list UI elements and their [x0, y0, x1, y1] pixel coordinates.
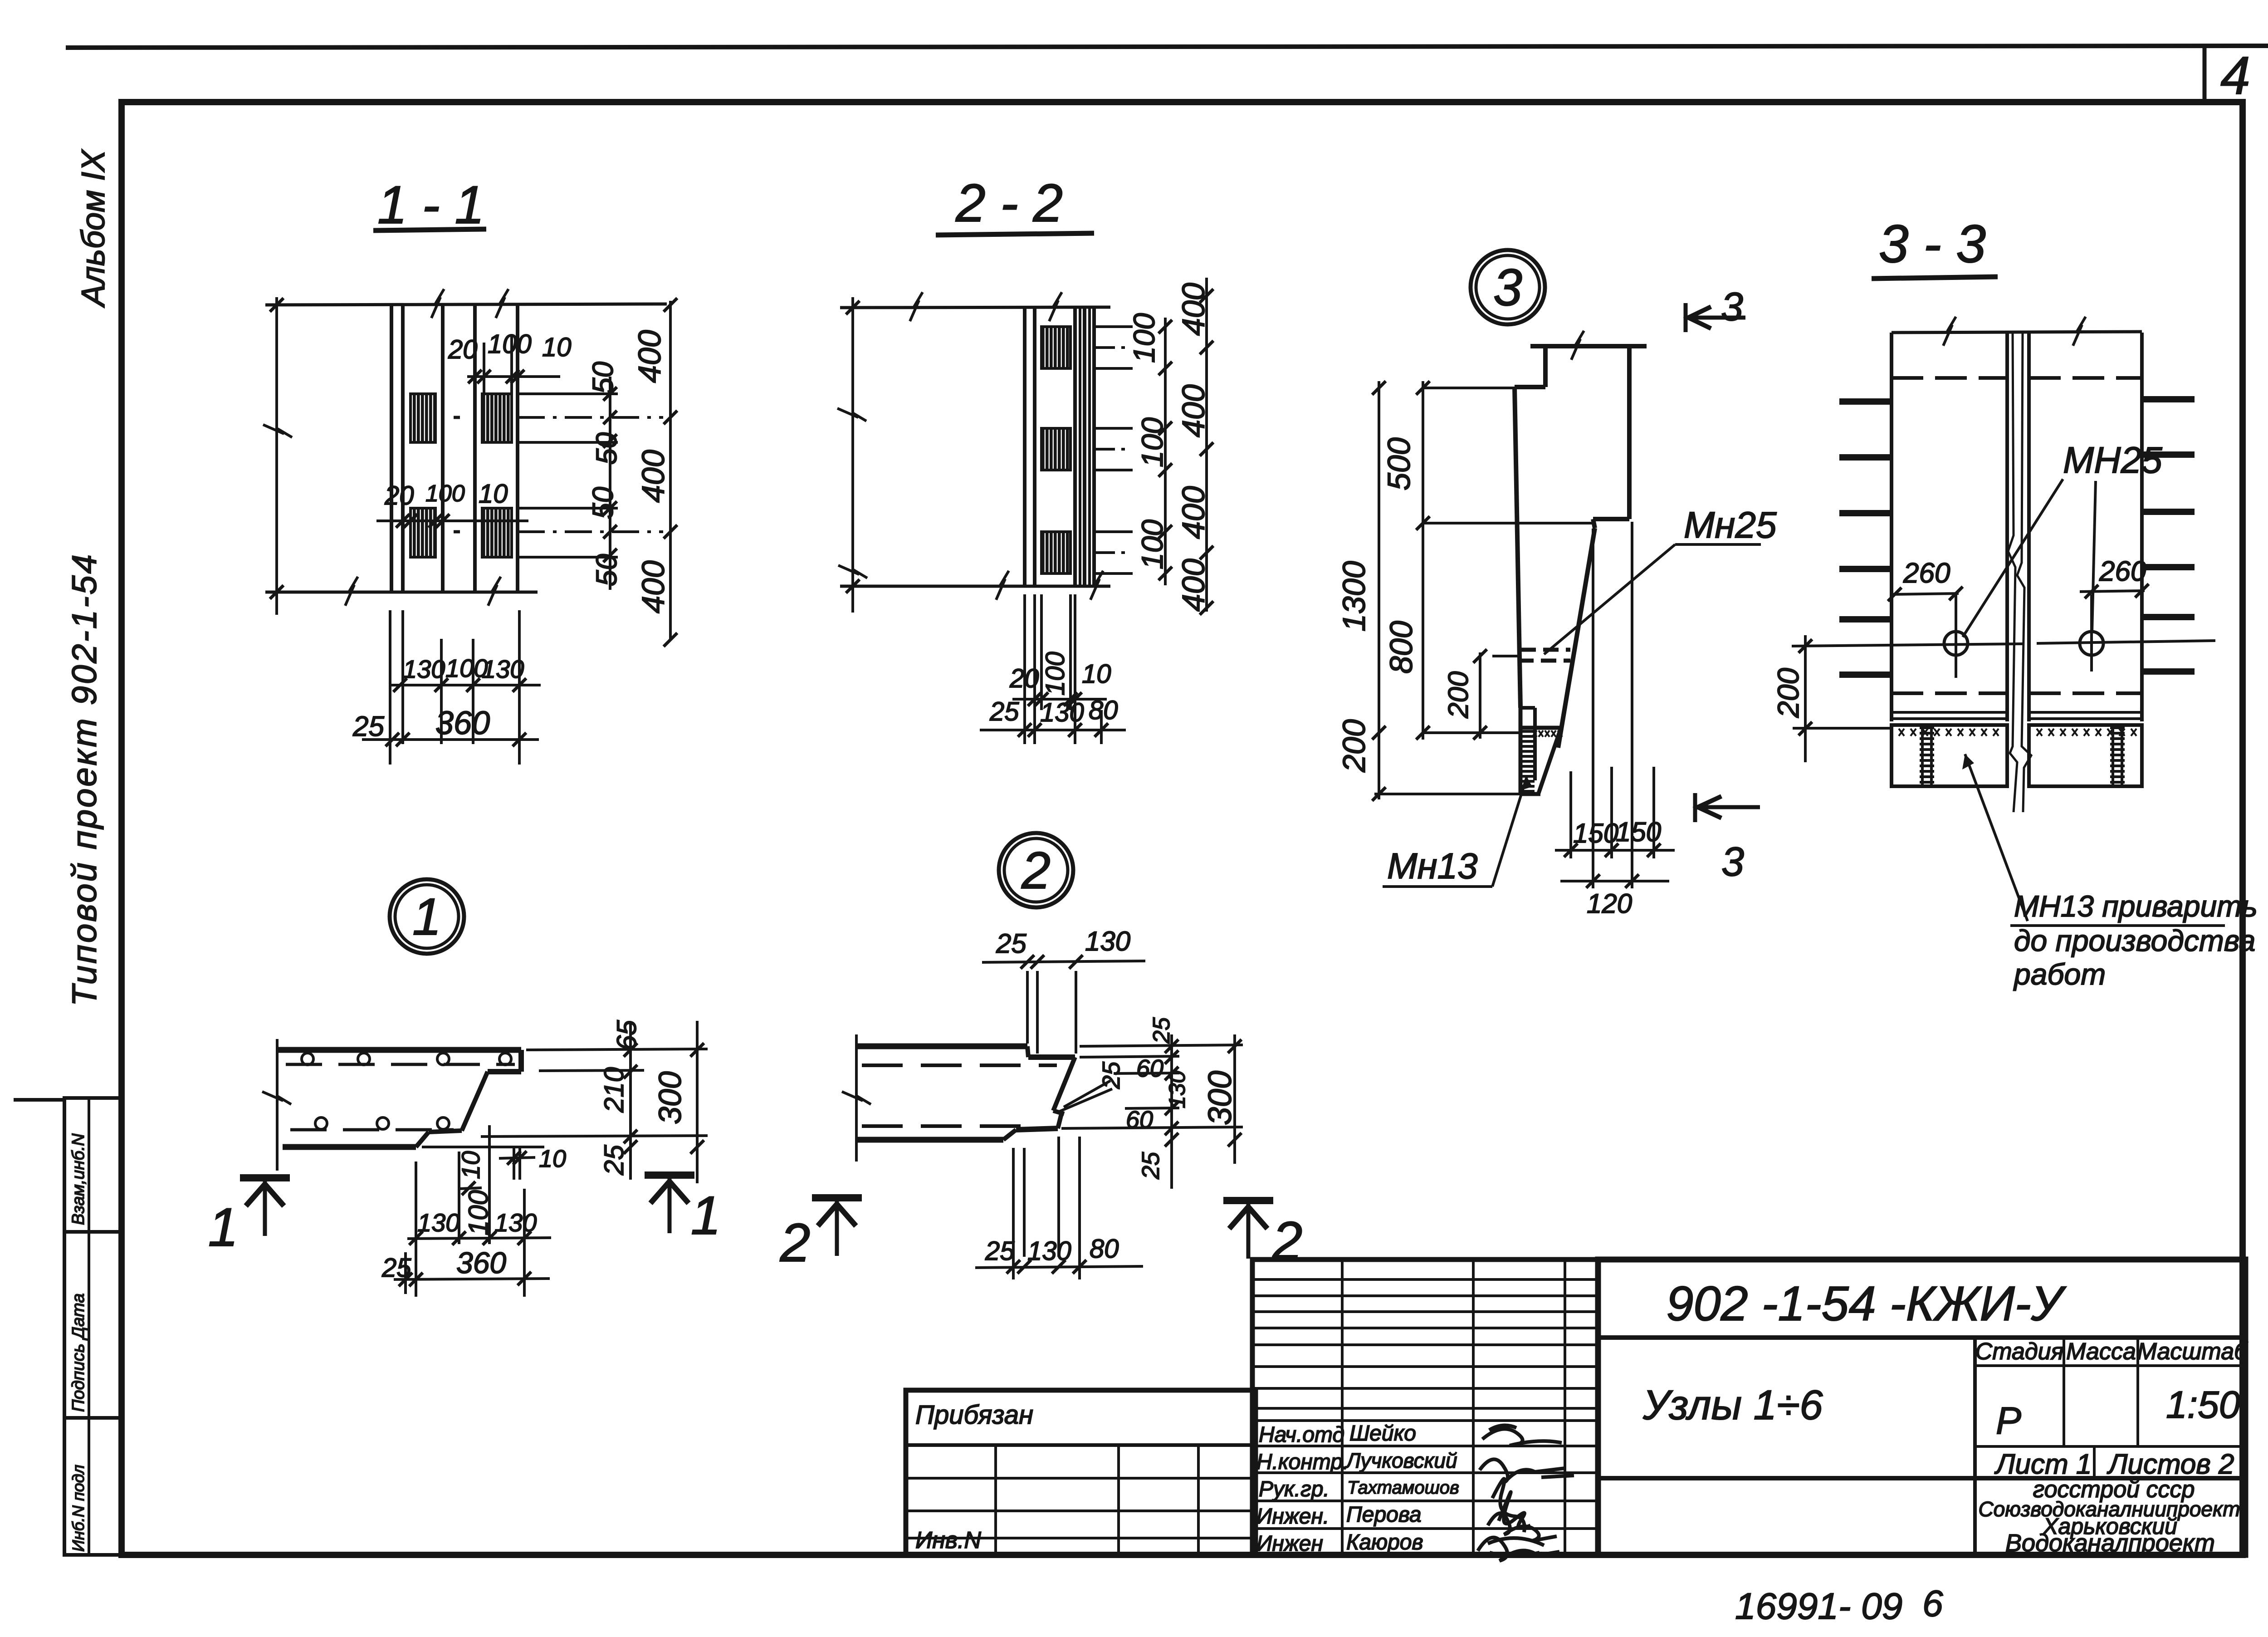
svg-text:50: 50 [587, 486, 619, 519]
svg-text:10: 10 [539, 1145, 566, 1172]
section 2-2 rebar block 1 [1041, 327, 1070, 368]
detail 3 extension line 1615 [1424, 731, 1520, 734]
svg-text:100: 100 [1135, 417, 1169, 467]
svg-text:80: 80 [1090, 1234, 1119, 1264]
svg-text:Альбом IХ: Альбом IХ [75, 149, 112, 308]
svg-text:16991- 09: 16991- 09 [1735, 1586, 1902, 1627]
svg-text:Н.контр.: Н.контр. [1256, 1450, 1349, 1474]
left change table [1252, 1260, 1598, 1555]
section 1-1 top dim 20 100 10 [467, 375, 560, 378]
svg-text:МН25: МН25 [2063, 440, 2162, 481]
section 1-1 center axis row2 [454, 530, 460, 534]
section 3-3 dim 260 right [2080, 591, 2145, 592]
svg-text:Р: Р [1996, 1399, 2021, 1442]
change table columns [1341, 1260, 1344, 1555]
svg-text:25: 25 [1098, 1061, 1125, 1089]
section 2-2 wall top line [840, 307, 1110, 308]
svg-text:50: 50 [587, 361, 619, 394]
section 3-3 anchor circle left [1944, 632, 1968, 655]
svg-text:3: 3 [1721, 839, 1744, 885]
detail 1 top rebar dashes [286, 1063, 515, 1066]
detail 3 Mn13 bracket [1519, 708, 1560, 794]
title block main divider under project code [1598, 1335, 2245, 1340]
svg-text:100: 100 [425, 480, 465, 507]
section 2-2 dim 20 100 10 [1012, 698, 1107, 701]
section 1-1 bottom extension lines [389, 610, 391, 765]
signatures [1482, 1426, 1562, 1446]
svg-text:400: 400 [635, 560, 671, 613]
svg-text:200: 200 [1771, 668, 1805, 718]
svg-text:25: 25 [989, 697, 1019, 726]
svg-text:10: 10 [456, 1151, 485, 1179]
detail 1 slab bottom [283, 1144, 416, 1150]
detail 2 rebar dashes top [862, 1064, 1057, 1067]
svg-text:25: 25 [985, 1236, 1015, 1266]
svg-text:Узлы 1÷6: Узлы 1÷6 [1642, 1382, 1823, 1428]
section 1-1 rebar block row1 left [411, 394, 435, 442]
section 1-1 left dim line [275, 297, 278, 615]
detail 1 bottom extension lines [415, 1162, 417, 1297]
section 3-3 bottom block right [2029, 725, 2142, 786]
detail 3 extension line 855 [1424, 387, 1515, 389]
section 2-2 row edge extensions [1094, 325, 1133, 328]
svg-text:Водоканалпроект: Водоканалпроект [2005, 1529, 2215, 1557]
svg-text:100: 100 [463, 1190, 494, 1235]
section 3-3 bottom block left [1892, 725, 2007, 786]
svg-text:Лист 1: Лист 1 [1994, 1449, 2092, 1480]
detail 1 top rebar circles [302, 1053, 313, 1065]
section 2-2 dim 100 line [1164, 318, 1167, 585]
svg-text:Шейко: Шейко [1349, 1421, 1416, 1446]
svg-text:360: 360 [456, 1246, 506, 1279]
svg-text:360: 360 [435, 705, 490, 741]
svg-text:Листов 2: Листов 2 [2107, 1449, 2234, 1480]
detail 1 section arrow right [645, 1171, 694, 1179]
svg-text:130: 130 [494, 1208, 537, 1237]
section cut arrow K3 top [1684, 303, 1688, 332]
svg-text:25: 25 [352, 711, 384, 742]
detail 1 left break [276, 1039, 279, 1171]
section 2-2 rebar block 2 [1041, 428, 1070, 470]
detail 2 section arrow left [812, 1194, 862, 1201]
stadia massa masshtab table [1975, 1338, 2245, 1446]
list row [2093, 1446, 2096, 1478]
section 2-2 wall bottom line [840, 585, 1110, 588]
svg-text:20: 20 [448, 335, 478, 364]
detail 3 extension line 1750 [1374, 793, 1530, 795]
svg-text:200: 200 [1336, 719, 1372, 773]
detail 1 bottom rebar circles [315, 1117, 327, 1129]
section 2-2 left dim line [851, 297, 854, 613]
detail 1 bottom rebar dashes [290, 1128, 454, 1132]
svg-text:130: 130 [403, 655, 445, 683]
svg-text:1300: 1300 [1336, 561, 1372, 632]
detail circle 3 [1471, 250, 1545, 324]
svg-text:работ: работ [2013, 957, 2106, 991]
detail circle 1 [390, 879, 464, 954]
svg-text:1:50: 1:50 [2166, 1383, 2240, 1426]
svg-text:500: 500 [1381, 437, 1417, 490]
detail 2 dim stack 25 60 130 60 25 [1170, 1034, 1173, 1189]
svg-text:100: 100 [488, 329, 532, 359]
detail 1 dim 130 100 130 [407, 1238, 551, 1239]
svg-text:3: 3 [1721, 284, 1743, 329]
svg-text:150: 150 [1573, 818, 1618, 848]
section 1-1 wall top line [265, 304, 667, 305]
section 1-1 rebar block row1 right [482, 394, 512, 442]
svg-text:25: 25 [599, 1145, 629, 1176]
pribyazan columns [994, 1445, 997, 1555]
svg-text:130: 130 [417, 1208, 459, 1237]
detail 3 dim line 500/800 [1422, 381, 1424, 740]
svg-text:20: 20 [384, 481, 414, 510]
section 3-3 column edges [1890, 333, 1893, 721]
svg-text:10: 10 [479, 479, 508, 509]
svg-text:Инжен: Инжен [1256, 1532, 1323, 1556]
detail circle 2 [999, 833, 1073, 907]
svg-text:2: 2 [1272, 1211, 1303, 1271]
section 3-3 dim 200 [1804, 635, 1807, 762]
svg-text:902 -1-54 -КЖИ-У: 902 -1-54 -КЖИ-У [1666, 1276, 2066, 1331]
svg-text:3 - 3: 3 - 3 [1879, 214, 1986, 274]
svg-text:400: 400 [632, 330, 667, 383]
svg-text:400: 400 [1176, 283, 1211, 336]
svg-text:1: 1 [412, 888, 441, 946]
svg-text:25: 25 [996, 928, 1026, 959]
svg-text:20: 20 [1009, 664, 1039, 693]
section 1-1 dim 400 line [669, 301, 672, 641]
section 1-1 center axis row1 [454, 416, 460, 419]
detail 3 bottom extension lines [1569, 771, 1572, 858]
svg-text:Масса: Масса [2066, 1338, 2136, 1365]
svg-text:100: 100 [1135, 520, 1169, 569]
detail 3 x-hatch marks [1532, 730, 1537, 737]
svg-text:260: 260 [1903, 558, 1950, 589]
detail 1 dim 25 360 [394, 1279, 550, 1279]
section 3-3 rebar stubs right [2142, 396, 2195, 402]
svg-text:130: 130 [1085, 926, 1130, 956]
svg-text:Подпись Дата: Подпись Дата [69, 1293, 88, 1412]
detail 1 dim line 65/210/25 [629, 1023, 632, 1180]
detail 1 section arrow left [240, 1174, 290, 1181]
detail 2 left break [855, 1034, 858, 1162]
section 3-3 rebar stubs left [1839, 398, 1892, 405]
svg-text:2 - 2: 2 - 2 [955, 173, 1063, 233]
section 1-1 dim 25 360 [362, 738, 539, 741]
svg-text:400: 400 [1176, 559, 1211, 612]
detail 2 top dim 25 130 [982, 961, 1145, 962]
detail 1 slab top [277, 1047, 521, 1053]
section 3-3 top line [1892, 332, 2142, 333]
svg-text:Инжен.: Инжен. [1256, 1505, 1329, 1529]
svg-text:400: 400 [1176, 486, 1211, 539]
svg-text:Тахтамошов: Тахтамошов [1347, 1478, 1459, 1498]
detail 2 dim 25 130 80 [975, 1266, 1143, 1268]
section 1-1 dim 50 line [609, 377, 611, 590]
section 1-1 wall face lines [390, 305, 393, 592]
svg-text:Прибязан: Прибязан [915, 1400, 1033, 1430]
svg-text:2: 2 [780, 1212, 811, 1273]
svg-text:50: 50 [590, 554, 623, 586]
section 3-3 bed joint lines [1892, 711, 2007, 714]
svg-text:60: 60 [1126, 1106, 1153, 1133]
detail 2 dim 300 [1233, 1034, 1236, 1164]
svg-text:130: 130 [1164, 1070, 1190, 1108]
section 3-3 anchor circle right [2080, 632, 2103, 655]
svg-text:25: 25 [381, 1253, 411, 1283]
svg-text:МН13 приварить: МН13 приварить [2014, 889, 2258, 923]
detail 2 section arrow right [1223, 1197, 1273, 1204]
svg-text:200: 200 [1443, 671, 1474, 719]
svg-text:Масштаб: Масштаб [2137, 1338, 2248, 1365]
section 1-1 mid dim 20 100 10 [376, 520, 528, 522]
svg-text:130: 130 [1040, 698, 1084, 727]
section cut arrow K3 bottom [1693, 793, 1697, 822]
svg-text:3: 3 [1493, 259, 1522, 317]
staff rows [1252, 1419, 1598, 1422]
svg-text:Инб.N подл: Инб.N подл [69, 1465, 88, 1552]
detail 2 bottom extension lines [1012, 1148, 1015, 1279]
svg-text:150: 150 [1616, 817, 1661, 847]
svg-text:80: 80 [1089, 696, 1118, 725]
section 1-1 row edge extensions [518, 392, 618, 395]
section 1-1 wall bottom line [265, 591, 538, 594]
svg-text:130: 130 [1027, 1236, 1071, 1266]
svg-text:300: 300 [652, 1071, 688, 1124]
svg-text:1: 1 [208, 1197, 239, 1258]
svg-text:Взам,инб.N: Взам,инб.N [69, 1133, 88, 1225]
svg-text:Мн13: Мн13 [1387, 846, 1478, 886]
svg-text:Нач.отд: Нач.отд [1259, 1423, 1344, 1447]
section 2-2 wall face lines [1023, 308, 1026, 586]
section 1-1 dim 130 100 130 [391, 684, 541, 686]
svg-text:4: 4 [2220, 46, 2250, 106]
svg-text:60: 60 [1136, 1055, 1163, 1082]
svg-text:Типовой проект 902-1-54: Типовой проект 902-1-54 [65, 553, 104, 1006]
detail 3 dim 150 150 [1555, 849, 1675, 852]
svg-text:Инв.N: Инв.N [915, 1527, 981, 1554]
detail 1 right extension lines [526, 1049, 708, 1050]
svg-text:Перова: Перова [1346, 1503, 1422, 1527]
section 2-2 dim 400 line [1205, 278, 1208, 612]
detail 2 slab bottom [856, 1137, 1003, 1143]
svg-text:300: 300 [1202, 1071, 1238, 1125]
detail 1 dim line 300 [696, 1021, 699, 1183]
section 3-3 ladder strips [1921, 725, 1924, 786]
section 1-1 rebar block row2 left [411, 508, 435, 557]
title block outer box [1598, 1260, 2245, 1555]
section 3-3 leader MH13 [1965, 754, 2028, 921]
svg-text:Мн25: Мн25 [1684, 505, 1777, 546]
svg-text:Стадия: Стадия [1975, 1338, 2064, 1365]
section 2-2 rebar block 3 [1041, 532, 1070, 573]
detail 2 slab top [856, 1044, 1027, 1049]
svg-text:до производства: до производства [2014, 924, 2256, 957]
svg-text:130: 130 [482, 655, 524, 683]
sheet top edge line [66, 46, 2268, 48]
svg-text:400: 400 [1176, 384, 1211, 437]
svg-text:6: 6 [1922, 1583, 1943, 1624]
svg-text:100: 100 [1127, 313, 1161, 363]
svg-text:210: 210 [599, 1067, 629, 1113]
svg-text:10: 10 [1082, 659, 1111, 689]
pribyazan box [906, 1390, 1256, 1555]
svg-text:120: 120 [1587, 888, 1632, 919]
sheet number box [2203, 48, 2207, 102]
uzly cell divider [1973, 1338, 1977, 1555]
svg-text:800: 800 [1383, 621, 1419, 674]
svg-text:260: 260 [2099, 556, 2146, 587]
svg-text:100: 100 [1041, 652, 1070, 696]
svg-text:Рук.гр.: Рук.гр. [1259, 1477, 1330, 1501]
detail 3 extension line 1153 [1424, 522, 1593, 524]
svg-text:10: 10 [542, 333, 572, 362]
left stamp table [14, 1098, 122, 1555]
detail 1 joint profile [416, 1050, 521, 1147]
section 1-1 rebar block row2 right [482, 508, 512, 557]
svg-text:Каюров: Каюров [1346, 1530, 1423, 1554]
pribyazan rows [906, 1443, 1256, 1447]
section 3-3 center line through anchors [1792, 644, 2023, 646]
svg-text:65: 65 [611, 1020, 642, 1050]
svg-text:1: 1 [691, 1185, 721, 1246]
section 2-2 dim 25 130 80 [980, 729, 1126, 731]
detail 3 Mn25 plate dashes [1520, 648, 1570, 652]
svg-text:Лучковский: Лучковский [1345, 1449, 1457, 1472]
svg-text:400: 400 [635, 450, 671, 503]
svg-text:50: 50 [590, 432, 623, 465]
svg-text:2: 2 [1021, 842, 1051, 900]
svg-text:1 - 1: 1 - 1 [377, 175, 484, 235]
detail 1 dim 10 small [499, 1157, 535, 1158]
detail 3 dim 120 [1560, 880, 1669, 882]
svg-text:25: 25 [1137, 1152, 1164, 1180]
section 3-3 top dashed line [1892, 376, 2007, 380]
detail 3 dim line 1300/200 [1378, 381, 1380, 799]
section 3-3 lower dashed line [1892, 691, 2007, 695]
detail 2 leader 25 inner [1064, 1081, 1110, 1107]
detail 3 wall profile [1515, 331, 1647, 748]
svg-text:25: 25 [1149, 1017, 1175, 1044]
detail 2 joint profile [1003, 1046, 1075, 1140]
section 3-3 middle break lines [2008, 333, 2017, 812]
detail 3 dim 200 right [1479, 652, 1481, 739]
section 3-3 x-hatch row [1899, 729, 1904, 736]
detail 2 rebar dashes bottom [862, 1124, 1039, 1128]
section 3-3 dim 260 left [1892, 593, 1959, 594]
detail 2 right extension lines [1080, 1056, 1179, 1057]
section 2-2 center axes [1094, 346, 1131, 349]
section 2-2 bottom extension lines [1023, 594, 1026, 744]
